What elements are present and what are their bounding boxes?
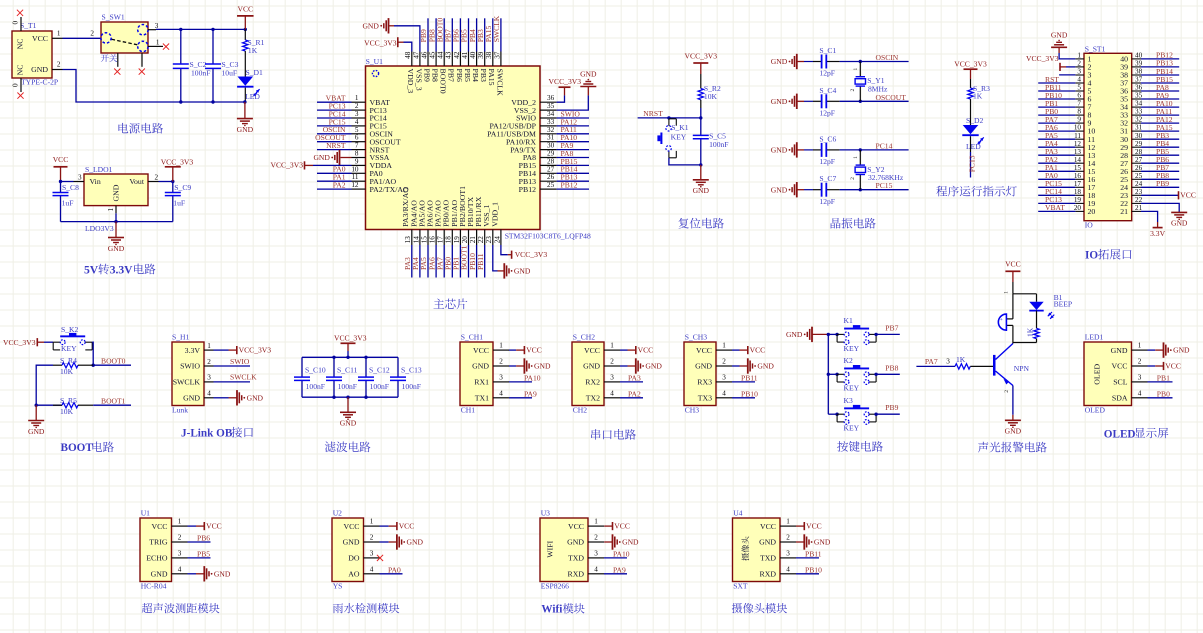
wire/net PA2 at S_CH2 pin4 <box>620 389 643 398</box>
svg-text:SWIO: SWIO <box>180 362 200 371</box>
svg-text:4: 4 <box>355 118 359 126</box>
svg-text:20: 20 <box>461 236 469 244</box>
svg-text:RXD: RXD <box>568 570 585 579</box>
svg-text:YS: YS <box>333 582 343 591</box>
wire R2 to NRST node <box>700 108 702 118</box>
svg-text:9: 9 <box>1077 116 1081 124</box>
pin 10 PA0 of U1 (left) <box>351 165 382 178</box>
svg-text:PA9: PA9 <box>524 389 537 398</box>
pin 28 PB15 of U1 (right) <box>519 157 557 170</box>
svg-text:GND: GND <box>28 427 45 436</box>
capacitor C3 <box>212 29 214 102</box>
ground flag at S_CH2 pin2 <box>620 365 636 367</box>
svg-text:BOOT: BOOT <box>61 442 94 454</box>
pin 44 BOOT0 of U1 (top) <box>437 51 448 94</box>
svg-text:VCC: VCC <box>750 346 766 355</box>
svg-text:2: 2 <box>178 534 182 542</box>
svg-text:IO: IO <box>1085 221 1094 230</box>
svg-text:VCC: VCC <box>760 522 776 531</box>
svg-text:GND: GND <box>362 21 379 30</box>
svg-text:SDA: SDA <box>1112 394 1128 403</box>
svg-text:24: 24 <box>493 236 501 244</box>
svg-text:GND: GND <box>645 362 662 371</box>
pin 3 RX1 of S_CH1 <box>474 373 509 386</box>
svg-text:6: 6 <box>1077 92 1081 100</box>
buzzer symbol <box>998 294 1013 343</box>
svg-text:VCC_3V3: VCC_3V3 <box>1026 54 1059 63</box>
header ST1 <box>1084 45 1132 230</box>
svg-text:PB10: PB10 <box>805 565 822 574</box>
svg-text:35: 35 <box>547 102 555 110</box>
svg-text:S_CH3: S_CH3 <box>685 333 708 342</box>
wire VCC to pin3 <box>61 181 74 183</box>
svg-text:4: 4 <box>786 565 790 573</box>
svg-text:U3: U3 <box>541 509 550 518</box>
svg-text:GND: GND <box>580 70 597 79</box>
wire ST1 pin22 to GND <box>1141 203 1179 212</box>
wire/net PB4 at U1 top <box>468 18 477 51</box>
svg-text:VDD_3: VDD_3 <box>406 69 415 94</box>
svg-text:3.3V: 3.3V <box>185 346 201 355</box>
svg-text:10K: 10K <box>704 92 718 101</box>
resistor 1K vertical in alarm <box>1025 311 1039 343</box>
pin 10 of ST1 (left) <box>1074 124 1096 136</box>
pin 7 of ST1 (left) <box>1075 100 1091 112</box>
svg-text:SWCLK: SWCLK <box>495 69 504 97</box>
pin 18 of ST1 (left) <box>1074 188 1096 200</box>
wire/net PA12 at U1 right <box>557 117 589 126</box>
regulator LDO1 <box>84 165 148 233</box>
svg-text:20: 20 <box>1088 207 1096 216</box>
pin 37 SWCLK of U1 (top) <box>493 51 504 96</box>
junction at crystal column y=101.3 <box>859 100 862 103</box>
pin 31 of ST1 (right) <box>1120 124 1142 136</box>
key K1 <box>837 325 876 344</box>
wire D2 to PC13 <box>968 136 977 177</box>
pin 16 of ST1 (left) <box>1074 172 1096 184</box>
svg-text:VCC_3V3: VCC_3V3 <box>3 338 36 347</box>
connector U4 <box>733 509 781 591</box>
svg-text:45: 45 <box>429 51 437 59</box>
wire LDO pin1 down <box>115 213 117 221</box>
svg-text:2: 2 <box>57 61 61 69</box>
pin 3 SCL of LED1 <box>1113 373 1147 386</box>
svg-text:TRIG: TRIG <box>149 538 168 547</box>
svg-text:17: 17 <box>437 236 445 244</box>
junctions on bottom rail <box>332 396 367 399</box>
wire/net PA5 at U1 bottom <box>419 245 428 278</box>
svg-text:BOOT0: BOOT0 <box>101 356 126 365</box>
pin 31 PA10/RX of U1 (right) <box>506 134 557 147</box>
pin 40 PB4 of U1 (top) <box>469 51 480 82</box>
junction GND rail at D1 <box>243 100 246 103</box>
connector T1 (TYPE-C-2P) <box>12 21 58 86</box>
pin 15 PA5/AO of U1 (bottom) <box>417 200 428 245</box>
svg-text:VBAT: VBAT <box>1045 203 1065 212</box>
pin 18 PB0/AO of U1 (bottom) <box>442 199 453 245</box>
wire bus to K1 <box>828 333 837 335</box>
wire VCC_3V3 to K2 <box>44 341 53 343</box>
keys left bus <box>827 334 829 414</box>
svg-text:GND: GND <box>112 184 121 201</box>
svg-text:1: 1 <box>207 342 211 350</box>
pin 1 VCC of U3 <box>568 518 604 531</box>
wire/net PA2 at U1 left <box>317 181 352 190</box>
pin 36 of ST1 (right) <box>1120 84 1142 96</box>
ground flag at U1 pin8 VSSA <box>341 157 352 159</box>
pin 2 of LDO1 <box>148 173 159 181</box>
svg-text:U4: U4 <box>733 509 742 518</box>
power VCC above buzzer <box>1005 260 1021 272</box>
wire/net PB0 at U1 bottom <box>444 245 453 278</box>
power VCC flag at ST1 pin23 <box>1179 191 1196 200</box>
svg-text:PB9: PB9 <box>885 403 898 412</box>
pin 14 of ST1 (left) <box>1074 156 1096 168</box>
svg-text:PA9: PA9 <box>613 565 626 574</box>
wire at ST1 pin3 <box>1059 74 1075 76</box>
wire/net PA0 at U1 left <box>317 165 352 174</box>
svg-text:S_C7: S_C7 <box>819 174 836 183</box>
svg-text:VCC: VCC <box>1005 260 1021 269</box>
ground below BOOT bus <box>35 405 37 420</box>
svg-text:2: 2 <box>610 358 614 366</box>
pin 3 of ST1 (left) <box>1075 68 1091 80</box>
svg-text:9: 9 <box>355 157 359 165</box>
svg-text:S_T1: S_T1 <box>20 21 37 30</box>
svg-text:23: 23 <box>485 236 493 244</box>
title 串口电路 <box>591 429 636 440</box>
alarm loop bottom wire <box>1013 342 1037 344</box>
svg-text:PB6: PB6 <box>197 534 210 543</box>
svg-text:ECHO: ECHO <box>146 554 168 563</box>
wire/net PB1 at LED1 pin3 <box>1148 373 1173 382</box>
svg-text:1: 1 <box>57 30 61 38</box>
svg-text:VCC_3V3: VCC_3V3 <box>271 161 304 170</box>
capacitor C11 <box>333 357 335 397</box>
svg-text:100nF: 100nF <box>191 69 210 78</box>
svg-text:STM32F103C8T6_LQFP48: STM32F103C8T6_LQFP48 <box>505 232 591 241</box>
pin 5 of ST1 (left) <box>1075 84 1091 96</box>
connector S_CH1 <box>460 333 493 415</box>
svg-text:GND: GND <box>340 419 357 428</box>
svg-text:VCC: VCC <box>614 522 630 531</box>
svg-text:VCC_3V3: VCC_3V3 <box>334 333 367 342</box>
resistor R3 <box>968 79 990 125</box>
pin 1 of LDO1 (bottom) <box>107 206 116 214</box>
svg-text:VCC_3V3: VCC_3V3 <box>364 38 397 47</box>
wire/net PC13 at U1 left <box>317 102 352 111</box>
pin 24 of ST1 (right) <box>1120 180 1142 192</box>
wire/net PB11 at U4 pin3 <box>796 549 822 558</box>
svg-text:SWCLK: SWCLK <box>492 15 501 42</box>
svg-text:PA0: PA0 <box>388 565 401 574</box>
svg-text:100nF: 100nF <box>370 382 389 391</box>
wire/net PB8 at U1 top <box>427 18 436 51</box>
pin 0 bottom of T1 <box>12 78 22 92</box>
svg-text:8: 8 <box>355 150 359 158</box>
svg-text:13: 13 <box>404 236 412 244</box>
svg-text:22: 22 <box>477 236 485 244</box>
title 雨水检测模块 <box>333 603 399 613</box>
svg-text:1: 1 <box>594 518 598 526</box>
svg-text:VCC: VCC <box>32 34 48 43</box>
svg-text:NRST: NRST <box>326 141 346 150</box>
switch SW1 <box>101 13 148 54</box>
svg-text:VCC: VCC <box>1180 191 1196 200</box>
junction on bus at K2 <box>827 373 830 376</box>
svg-text:1: 1 <box>1077 52 1081 60</box>
svg-text:S_R5: S_R5 <box>60 396 77 405</box>
pin 12 PA2/TX/AO of U1 (left) <box>351 181 409 194</box>
svg-text:100nF: 100nF <box>709 140 728 149</box>
pin 2 GND of U4 <box>759 534 796 547</box>
svg-text:33: 33 <box>547 118 555 126</box>
pin 17 of ST1 (left) <box>1074 180 1096 192</box>
svg-text:GND: GND <box>771 185 788 194</box>
wire/net PB9 at ST1 right <box>1141 179 1179 188</box>
title 电源电路 <box>118 123 163 134</box>
pin 15 of ST1 (left) <box>1074 164 1096 176</box>
svg-text:16: 16 <box>429 236 437 244</box>
header H1 (J-Link) <box>172 333 204 415</box>
pin 13 of ST1 (left) <box>1074 148 1096 160</box>
no-ERC marker at U2 pin3 <box>377 555 383 561</box>
wire/net PB9 at U1 top <box>419 18 428 51</box>
wire/net PA8 at ST1 right <box>1141 83 1179 92</box>
bottom pins of SW1 <box>118 53 142 67</box>
svg-text:CH2: CH2 <box>573 406 588 415</box>
wire/net PA3 at S_CH2 pin3 <box>620 373 643 382</box>
capacitor C13 <box>397 357 399 397</box>
no-ERC marker bottom of T1 <box>17 93 23 99</box>
ground below LDO1 <box>115 222 117 238</box>
svg-text:VCC: VCC <box>151 522 167 531</box>
pin 38 of ST1 (right) <box>1120 68 1142 80</box>
svg-text:43: 43 <box>445 51 453 59</box>
svg-text:KEY: KEY <box>671 133 687 142</box>
svg-text:30: 30 <box>547 142 555 150</box>
wire/net PA0 at U2 pin4 <box>380 565 403 574</box>
svg-text:38: 38 <box>485 51 493 59</box>
pin 0 top of T1 <box>12 17 22 31</box>
svg-text:GND: GND <box>757 362 774 371</box>
ground flag left of C4 <box>771 94 797 109</box>
title 复位电路 <box>678 218 723 229</box>
svg-text:S_C4: S_C4 <box>819 86 836 95</box>
wire/net PC14 at U1 left <box>317 109 352 118</box>
svg-text:GND: GND <box>514 267 531 276</box>
svg-text:LED: LED <box>245 92 260 101</box>
svg-text:3: 3 <box>946 358 950 366</box>
svg-text:2: 2 <box>207 358 211 366</box>
MCU U1 STM32F103C8T6 <box>366 57 591 240</box>
ground flag at H1 pin4 <box>237 390 264 405</box>
svg-text:PB11: PB11 <box>741 373 758 382</box>
pin 26 PB13 of U1 (right) <box>519 173 557 186</box>
power VCC_3V3 above R3 <box>954 60 987 79</box>
svg-text:VCC: VCC <box>806 522 822 531</box>
svg-text:VCC_3V3: VCC_3V3 <box>549 77 582 86</box>
wire/net PB6 at U1 top <box>452 18 461 51</box>
connector U2 <box>332 509 364 591</box>
svg-text:3: 3 <box>1138 373 1142 381</box>
wire/net PA10 at S_CH1 pin3 <box>509 373 541 382</box>
wire/net SWCLK at U1 top <box>492 15 501 51</box>
pin 8 VSSA of U1 (left) <box>352 150 390 163</box>
svg-text:SXT: SXT <box>733 582 748 591</box>
wire/net PA4 at ST1 left <box>1038 139 1075 148</box>
junction at K2 right <box>874 373 877 376</box>
svg-text:GND: GND <box>108 244 125 253</box>
svg-text:41: 41 <box>461 51 469 59</box>
svg-text:15: 15 <box>420 236 428 244</box>
svg-text:PA7: PA7 <box>925 357 938 366</box>
pin 40 of ST1 (right) <box>1120 52 1142 64</box>
svg-text:4: 4 <box>370 565 374 573</box>
wire/net PA9 at U3 pin4 <box>604 565 627 574</box>
pin 11 of ST1 (left) <box>1074 132 1095 144</box>
pin 11 PA1/AO of U1 (left) <box>352 173 397 186</box>
wire/net PB7 at K1 <box>876 323 900 334</box>
wire net PC15 <box>840 181 909 190</box>
title 主芯片 <box>433 299 467 310</box>
svg-text:PA3: PA3 <box>628 373 641 382</box>
svg-text:3: 3 <box>370 549 374 557</box>
svg-text:GND: GND <box>183 394 200 403</box>
wire/net PB15 at U1 right <box>557 157 589 166</box>
svg-text:KEY: KEY <box>844 384 860 393</box>
capacitor C10 <box>301 357 303 397</box>
pin 47 VSS_3 of U1 (top) <box>412 51 423 90</box>
svg-text:Vin: Vin <box>90 177 101 186</box>
svg-text:TX3: TX3 <box>698 394 712 403</box>
wire/net PC15 at ST1 left <box>1038 179 1075 188</box>
capacitor C8 <box>60 182 62 222</box>
svg-text:WIFI: WIFI <box>546 540 555 557</box>
key S_K2 <box>53 333 92 350</box>
alarm loop top wire <box>1013 293 1037 295</box>
pin 39 of ST1 (right) <box>1120 60 1142 72</box>
wire/net PB3 at ST1 right <box>1141 131 1179 140</box>
svg-text:VCC: VCC <box>343 522 359 531</box>
pin 32 of ST1 (right) <box>1120 116 1142 128</box>
svg-text:GND: GND <box>771 97 788 106</box>
lead VCC down <box>60 167 62 182</box>
svg-text:VDD_1: VDD_1 <box>490 202 499 227</box>
pin 3 SWCLK of H1 <box>173 374 214 387</box>
svg-text:VCC_3V3: VCC_3V3 <box>239 346 272 355</box>
capacitor C5 <box>700 118 702 165</box>
pin 2 SWIO of H1 <box>180 358 213 371</box>
wire/net PA2 at ST1 left <box>1038 155 1075 164</box>
power VCC flag at U4 pin1 <box>796 525 804 527</box>
pin 1 VCC of S_CH3 <box>696 342 732 355</box>
pin 27 PB14 of U1 (right) <box>519 165 557 178</box>
svg-text:2: 2 <box>499 358 503 366</box>
svg-text:1K: 1K <box>956 355 966 364</box>
svg-text:S_ST1: S_ST1 <box>1085 45 1106 54</box>
svg-text:LED1: LED1 <box>1085 333 1104 342</box>
wire H1 pin4 to GND <box>214 397 238 399</box>
svg-text:PB7: PB7 <box>885 323 898 332</box>
svg-text:KEY: KEY <box>844 424 860 433</box>
svg-text:PA2: PA2 <box>628 389 641 398</box>
junction C5 / GND <box>699 163 702 166</box>
power VCC flag at U1 pin1 <box>188 525 205 527</box>
crystal Y1 8MHz <box>850 62 860 102</box>
svg-text:NRST: NRST <box>643 109 663 118</box>
svg-text:VCC: VCC <box>473 346 489 355</box>
wire/net PB6 at ST1 right <box>1141 155 1179 164</box>
pin 4 GND of H1 <box>183 390 213 403</box>
wire/net OSCIN at U1 left <box>317 125 352 134</box>
svg-text:VCC: VCC <box>568 522 584 531</box>
resistor R5 <box>36 396 93 416</box>
svg-text:GND: GND <box>31 65 48 74</box>
wire/net PC13 at ST1 left <box>1038 195 1075 204</box>
power VCC_3V3 flag at U1 pin24 <box>508 250 548 259</box>
svg-text:GND: GND <box>814 538 831 547</box>
svg-text:GND: GND <box>472 362 489 371</box>
svg-text:GND: GND <box>1005 427 1022 436</box>
pin 17 PA7/AO of U1 (bottom) <box>434 200 445 245</box>
pin 4 PC15 of U1 (left) <box>352 118 387 131</box>
pin 37 of ST1 (right) <box>1120 76 1142 88</box>
ground below D1 <box>244 102 246 119</box>
pin 13 PA3/RX/AO of U1 (bottom) <box>401 187 412 245</box>
svg-text:5: 5 <box>355 126 359 134</box>
junction at crystal column y=61.5 <box>859 60 862 63</box>
svg-text:PB7: PB7 <box>447 69 456 83</box>
wire/net BOOT1 at U1 bottom <box>460 245 469 278</box>
svg-text:BEEP: BEEP <box>1054 300 1073 309</box>
svg-text:PC15: PC15 <box>876 181 893 190</box>
wire/net PA9 at ST1 right <box>1141 91 1179 100</box>
capacitor C4 <box>804 100 840 102</box>
power VCC_3V3 above filter <box>334 333 367 357</box>
svg-text:1uF: 1uF <box>173 199 185 208</box>
pin 36 VDD_2 of U1 (right) <box>511 94 556 107</box>
svg-text:U2: U2 <box>333 509 342 518</box>
wire/net PB11 at S_CH3 pin3 <box>732 373 758 382</box>
wire ST1 pin21 to 3.3V <box>1141 211 1158 222</box>
svg-text:HC-R04: HC-R04 <box>141 582 167 591</box>
svg-text:GND: GND <box>313 153 330 162</box>
power VCC_3V3 flag at H1 pin1 <box>237 346 271 355</box>
power VCC flag at U3 pin1 <box>604 525 613 527</box>
wire emitter to GND <box>1012 386 1014 415</box>
svg-text:25: 25 <box>547 181 555 189</box>
wire to key K1 <box>668 117 670 120</box>
svg-text:2: 2 <box>594 534 598 542</box>
pin 14 PA4/AO of U1 (bottom) <box>409 200 420 245</box>
svg-text:48: 48 <box>404 51 412 59</box>
junction at C9 <box>171 180 174 183</box>
pin 22 of ST1 (right) <box>1120 196 1142 208</box>
svg-text:TXD: TXD <box>760 554 776 563</box>
wire/net PA15 at U1 top <box>484 18 493 51</box>
capacitor C2 <box>180 29 182 102</box>
svg-text:39: 39 <box>477 51 485 59</box>
pin 25 of ST1 (right) <box>1120 172 1142 184</box>
pin 2 GND of S_CH2 <box>583 358 620 371</box>
pin 3 TXD of U4 <box>760 549 796 562</box>
pin 34 of ST1 (right) <box>1120 100 1142 112</box>
pin 24 VDD_1 of U1 (bottom) <box>490 202 501 245</box>
junction GND rail at C2 <box>179 100 182 103</box>
designator B1 BEEP <box>1054 293 1073 309</box>
wire R4 to left bus <box>36 365 53 405</box>
